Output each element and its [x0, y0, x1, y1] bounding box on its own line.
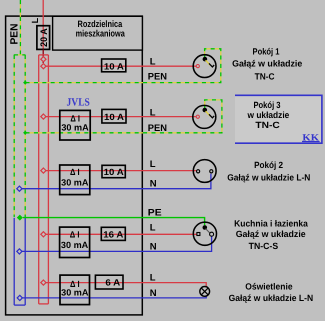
RCD U3 30mA	[60, 165, 90, 195]
callout box Pokoj 3	[235, 96, 321, 142]
node L branch row1	[41, 64, 46, 69]
wire L row4	[46, 233, 197, 235]
socket X1 Pokoj 1	[193, 55, 216, 78]
svg-text:N: N	[150, 241, 157, 252]
title box Rozdzielnica mieszkaniowa	[53, 16, 143, 50]
node L terminal	[41, 57, 46, 62]
node N branch row4	[17, 249, 22, 254]
fuse F4 16 A	[101, 227, 125, 240]
node L branch row2	[41, 114, 46, 119]
svg-text:6 A: 6 A	[105, 278, 120, 288]
wire PEN row2	[25, 100, 222, 133]
svg-text:Pokój 1: Pokój 1	[253, 47, 280, 57]
wire L row5	[46, 283, 206, 287]
wire PEN row1	[25, 49, 220, 83]
svg-text:N: N	[150, 179, 157, 190]
svg-text:L: L	[150, 107, 156, 118]
fuse F1 10 A	[102, 59, 126, 72]
svg-text:TN-C-S: TN-C-S	[249, 241, 279, 251]
svg-text:Gałąź w układzie L-N: Gałąź w układzie L-N	[229, 293, 314, 303]
svg-text:30 mA: 30 mA	[61, 288, 89, 298]
wire N row3	[22, 174, 211, 189]
RCD U5 30mA	[60, 275, 90, 305]
socket X4 Kuchnia	[193, 222, 216, 245]
breaker 20 A main	[37, 26, 50, 50]
wire L row1	[46, 65, 196, 67]
svg-text:20 A: 20 A	[39, 28, 50, 47]
node L branch row3	[41, 168, 46, 173]
wire PEN bus fork top	[14, 54, 26, 56]
svg-text:Kuchnia i łazienka: Kuchnia i łazienka	[234, 218, 309, 228]
svg-text:16 A: 16 A	[103, 229, 124, 239]
socket X2 Pokoj 3	[193, 105, 216, 128]
svg-text:Δ I: Δ I	[70, 167, 80, 177]
svg-text:30 mA: 30 mA	[61, 177, 89, 187]
distribution board enclosure	[6, 16, 143, 315]
node PEN junction row2	[23, 131, 27, 135]
wire L row3	[46, 170, 196, 172]
node L branch row4	[41, 232, 46, 237]
svg-text:N: N	[150, 288, 157, 299]
svg-text:L: L	[150, 222, 156, 233]
fuse F3 10 A	[102, 165, 125, 177]
svg-text:Oświetlenie: Oświetlenie	[245, 281, 292, 291]
svg-text:L: L	[150, 159, 156, 170]
node N branch row5	[17, 295, 22, 300]
wire L bus right	[47, 55, 49, 304]
RCD U2 30mA	[60, 110, 90, 140]
RCD U4 30mA	[60, 227, 90, 257]
svg-text:L: L	[150, 273, 156, 284]
svg-text:30 mA: 30 mA	[61, 240, 89, 250]
svg-text:Pokój 2: Pokój 2	[254, 160, 283, 170]
svg-text:TN-C: TN-C	[255, 120, 280, 130]
wire L row2	[46, 116, 196, 118]
svg-text:PEN: PEN	[148, 123, 167, 134]
wire L drop from supply	[42, 0, 44, 49]
fuse F2 10 A	[102, 109, 126, 123]
fuse F5 6 A	[95, 275, 123, 289]
svg-text:10 A: 10 A	[104, 167, 125, 177]
node PEN junction row1	[23, 81, 27, 85]
wire L bus bottom	[39, 303, 49, 305]
svg-text:30 mA: 30 mA	[61, 123, 89, 133]
svg-text:PEN: PEN	[8, 24, 20, 45]
svg-text:Gałąź w układzie: Gałąź w układzie	[236, 229, 306, 239]
wire L bus left	[38, 55, 40, 304]
svg-text:Gałąź w układzie: Gałąź w układzie	[232, 59, 302, 69]
node L branch row5	[41, 280, 46, 285]
svg-text:Gałąź w układzie L-N: Gałąź w układzie L-N	[227, 172, 310, 182]
wire stub below main breaker	[42, 49, 44, 63]
svg-text:PEN: PEN	[148, 72, 167, 83]
wire N bus bottom	[14, 304, 25, 306]
socket X3 Pokoj 2	[193, 160, 216, 183]
node N branch row3	[17, 186, 22, 191]
node PE split	[17, 215, 23, 221]
svg-text:Δ I: Δ I	[70, 230, 80, 240]
svg-text:L: L	[150, 56, 156, 67]
svg-text:w układzie: w układzie	[247, 110, 290, 120]
svg-text:PE: PE	[148, 208, 162, 219]
wire N bus right	[24, 218, 26, 305]
wire PEN bus right	[24, 55, 26, 217]
wire N bus left (below PEN split)	[13, 218, 15, 305]
wire PEN drop from supply	[19, 0, 21, 55]
svg-text:L: L	[30, 17, 40, 23]
wire PEN bus left	[13, 55, 15, 217]
svg-text:10 A: 10 A	[104, 61, 125, 71]
svg-text:10 A: 10 A	[104, 112, 125, 122]
wire PE row4	[23, 218, 205, 226]
svg-text:Pokój 3: Pokój 3	[253, 100, 280, 110]
lamp E1	[200, 287, 210, 297]
wire N row5	[22, 296, 206, 298]
svg-text:Rozdzielnica: Rozdzielnica	[78, 19, 123, 29]
wire L bus fork top	[39, 54, 49, 56]
svg-text:TN-C: TN-C	[255, 72, 275, 82]
wire N row4	[22, 236, 212, 251]
svg-text:mieszkaniowa: mieszkaniowa	[76, 29, 126, 39]
svg-text:JVLS: JVLS	[67, 97, 90, 109]
